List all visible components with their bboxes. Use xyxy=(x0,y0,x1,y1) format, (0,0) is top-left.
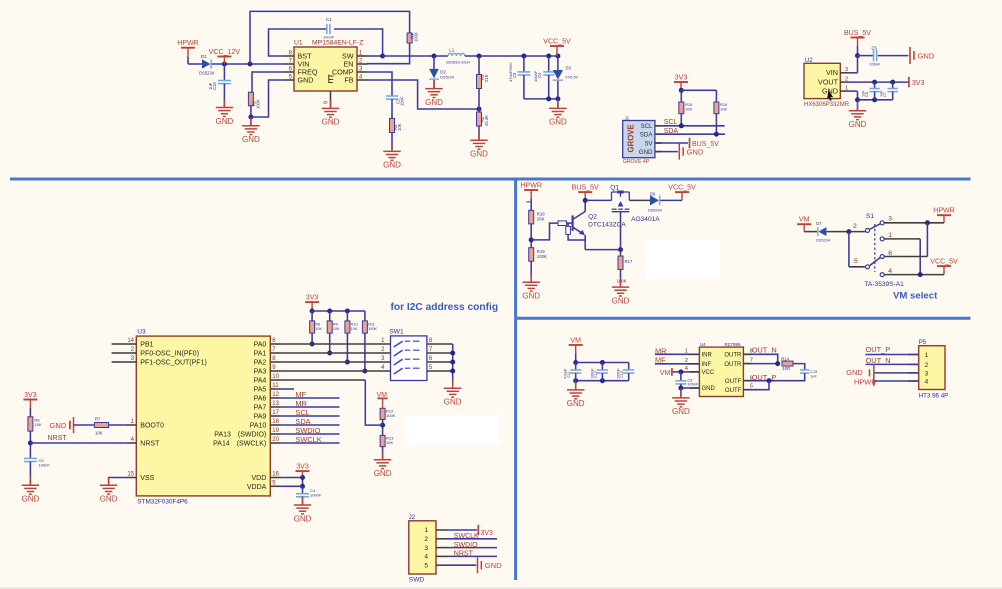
svg-text:10K: 10K xyxy=(95,431,103,436)
svg-text:PA3: PA3 xyxy=(254,369,267,376)
svg-text:OUTF: OUTF xyxy=(725,379,742,385)
svg-text:OUTR: OUTR xyxy=(724,362,742,368)
svg-text:GND: GND xyxy=(100,495,118,504)
svg-text:D7: D7 xyxy=(816,221,822,226)
svg-text:VCC_5V: VCC_5V xyxy=(668,185,696,192)
svg-text:100K: 100K xyxy=(537,254,547,259)
svg-text:BUS_5V: BUS_5V xyxy=(844,30,871,37)
svg-text:TA-3539S-A1: TA-3539S-A1 xyxy=(864,281,904,288)
svg-text:C6: C6 xyxy=(865,92,869,97)
svg-text:PA9: PA9 xyxy=(254,414,267,421)
svg-text:C1: C1 xyxy=(326,17,332,22)
svg-text:GND: GND xyxy=(298,76,314,85)
svg-text:GND: GND xyxy=(383,161,401,170)
svg-text:GND: GND xyxy=(22,495,40,504)
svg-text:S1: S1 xyxy=(866,213,874,220)
svg-text:6: 6 xyxy=(888,250,892,257)
svg-text:R7: R7 xyxy=(95,417,101,422)
svg-text:PA6: PA6 xyxy=(254,396,267,403)
svg-text:8: 8 xyxy=(750,348,753,354)
svg-text:SWCLK: SWCLK xyxy=(295,435,321,444)
svg-text:GROVE: GROVE xyxy=(627,124,636,152)
svg-text:Q2: Q2 xyxy=(588,214,597,221)
svg-text:GND: GND xyxy=(687,147,704,156)
svg-text:11: 11 xyxy=(272,383,279,389)
svg-text:1uF: 1uF xyxy=(810,374,817,378)
svg-text:10nF: 10nF xyxy=(400,96,405,106)
svg-text:GND: GND xyxy=(849,120,867,129)
svg-text:10K: 10K xyxy=(397,123,402,131)
svg-text:20: 20 xyxy=(272,437,279,443)
svg-text:100K: 100K xyxy=(386,413,396,418)
svg-text:18: 18 xyxy=(272,419,279,425)
svg-text:VCC: VCC xyxy=(702,370,715,376)
svg-text:HT3.96 4P: HT3.96 4P xyxy=(919,392,949,399)
svg-text:SDA: SDA xyxy=(664,128,679,135)
svg-text:2: 2 xyxy=(925,362,929,369)
svg-text:P5: P5 xyxy=(919,340,927,346)
svg-text:HPWR: HPWR xyxy=(177,40,199,47)
svg-text:HPWR: HPWR xyxy=(933,208,955,215)
svg-text:SWCLK: SWCLK xyxy=(454,533,479,540)
svg-text:INF: INF xyxy=(702,362,712,368)
svg-text:PA13 (SWDIO): PA13 (SWDIO) xyxy=(214,432,266,439)
svg-text:GND: GND xyxy=(425,98,443,107)
svg-text:15: 15 xyxy=(127,472,134,478)
svg-text:20K: 20K xyxy=(537,217,545,222)
svg-text:GND: GND xyxy=(470,150,488,159)
svg-text:PA7: PA7 xyxy=(254,405,267,412)
svg-text:GND: GND xyxy=(702,386,716,392)
svg-text:U1: U1 xyxy=(294,40,303,47)
svg-text:OUTR: OUTR xyxy=(724,353,742,359)
svg-text:5V: 5V xyxy=(645,140,653,147)
svg-text:PA10: PA10 xyxy=(250,423,267,430)
svg-text:1uF: 1uF xyxy=(208,82,213,90)
svg-text:R14: R14 xyxy=(781,356,789,361)
svg-text:L1: L1 xyxy=(449,48,455,53)
svg-text:SDA: SDA xyxy=(295,417,310,426)
svg-text:PF1-OSC_OUT(PF1): PF1-OSC_OUT(PF1) xyxy=(140,360,207,367)
svg-text:SWD: SWD xyxy=(409,577,425,584)
svg-text:470uF/50V: 470uF/50V xyxy=(508,62,513,82)
svg-text:SW1: SW1 xyxy=(389,329,404,336)
svg-text:DS5234: DS5234 xyxy=(648,208,662,212)
svg-text:100nF: 100nF xyxy=(870,63,881,67)
svg-text:100nF: 100nF xyxy=(39,463,51,468)
svg-text:R17: R17 xyxy=(625,259,633,264)
svg-text:VCC_5V: VCC_5V xyxy=(930,259,958,266)
svg-text:3V3: 3V3 xyxy=(296,464,309,471)
svg-text:PA14 (SWCLK): PA14 (SWCLK) xyxy=(213,441,266,448)
svg-text:VM: VM xyxy=(660,370,671,377)
svg-text:100nF: 100nF xyxy=(617,368,621,379)
svg-text:STM32F030F4P6: STM32F030F4P6 xyxy=(137,498,188,505)
svg-text:SD0810-10uH: SD0810-10uH xyxy=(446,61,470,65)
svg-text:FB: FB xyxy=(344,76,353,85)
svg-text:NRST: NRST xyxy=(454,551,474,558)
svg-text:3V3: 3V3 xyxy=(912,80,925,87)
svg-text:3: 3 xyxy=(845,67,848,73)
svg-text:D2: D2 xyxy=(440,70,446,75)
svg-text:for I2C address config: for I2C address config xyxy=(391,302,499,313)
svg-text:100nF: 100nF xyxy=(310,493,322,498)
svg-text:OUT_N: OUT_N xyxy=(866,356,891,365)
svg-text:1uF: 1uF xyxy=(880,90,884,97)
svg-text:3V3: 3V3 xyxy=(675,75,688,82)
svg-text:2: 2 xyxy=(853,223,857,230)
svg-text:D1: D1 xyxy=(201,54,207,59)
svg-text:19: 19 xyxy=(272,428,279,434)
svg-text:R9: R9 xyxy=(333,323,338,327)
svg-text:4: 4 xyxy=(925,378,929,385)
svg-text:10K: 10K xyxy=(315,327,322,331)
svg-text:VIN: VIN xyxy=(826,68,838,77)
svg-text:100nF: 100nF xyxy=(533,70,538,82)
svg-text:100nF: 100nF xyxy=(590,368,594,379)
svg-text:U2: U2 xyxy=(805,58,813,64)
svg-text:GND: GND xyxy=(242,135,260,144)
svg-text:10K: 10K xyxy=(720,107,727,112)
svg-text:2: 2 xyxy=(845,76,848,82)
svg-text:100K: 100K xyxy=(414,32,419,42)
svg-text:1: 1 xyxy=(925,352,929,359)
svg-text:D6: D6 xyxy=(650,191,656,196)
svg-text:10K: 10K xyxy=(333,327,340,331)
svg-text:GND: GND xyxy=(322,118,340,127)
svg-text:5: 5 xyxy=(424,562,428,569)
svg-text:DS5234: DS5234 xyxy=(199,71,215,76)
svg-text:INR: INR xyxy=(702,353,713,359)
svg-text:VCC_5V: VCC_5V xyxy=(543,39,571,46)
svg-text:SCL: SCL xyxy=(664,119,678,126)
svg-text:BUS_5V: BUS_5V xyxy=(572,185,599,192)
svg-text:MR: MR xyxy=(295,399,307,408)
svg-text:OUT_N: OUT_N xyxy=(752,346,777,355)
svg-text:VM select: VM select xyxy=(893,291,938,302)
svg-text:GND: GND xyxy=(918,51,935,60)
svg-text:5: 5 xyxy=(854,258,858,265)
svg-text:1: 1 xyxy=(845,85,848,91)
svg-text:10K: 10K xyxy=(685,107,692,112)
svg-text:7: 7 xyxy=(750,357,753,363)
svg-text:C7: C7 xyxy=(883,92,887,97)
svg-text:VCC_12V: VCC_12V xyxy=(209,49,241,56)
svg-text:U3: U3 xyxy=(137,329,146,336)
svg-text:VDDA: VDDA xyxy=(247,484,267,491)
svg-text:VM: VM xyxy=(570,338,581,345)
svg-text:21K: 21K xyxy=(484,74,489,82)
svg-text:VSS: VSS xyxy=(140,475,154,482)
svg-text:SCL: SCL xyxy=(295,408,309,417)
svg-text:10K: 10K xyxy=(386,440,393,445)
svg-text:R10: R10 xyxy=(351,323,358,327)
svg-text:100K: 100K xyxy=(256,99,261,109)
svg-text:HPWR: HPWR xyxy=(520,183,542,190)
svg-text:10R: 10R xyxy=(782,366,790,371)
svg-text:DS5234: DS5234 xyxy=(816,238,830,242)
svg-text:C5: C5 xyxy=(872,46,878,51)
svg-text:4: 4 xyxy=(424,554,428,561)
svg-text:10K: 10K xyxy=(351,327,358,331)
svg-text:MP1584EN-LF-Z: MP1584EN-LF-Z xyxy=(312,40,363,47)
svg-text:GND: GND xyxy=(522,292,540,301)
svg-text:13: 13 xyxy=(272,401,279,407)
svg-text:PA2: PA2 xyxy=(254,360,267,367)
svg-text:R11: R11 xyxy=(368,323,375,327)
svg-text:GND: GND xyxy=(294,514,312,523)
svg-text:SWDIO: SWDIO xyxy=(454,542,478,549)
svg-text:GND: GND xyxy=(612,296,630,305)
svg-text:14: 14 xyxy=(127,338,134,344)
svg-text:9: 9 xyxy=(324,101,330,104)
svg-text:BOOT0: BOOT0 xyxy=(140,423,164,430)
svg-text:PA5: PA5 xyxy=(254,387,267,394)
svg-text:OUT_P: OUT_P xyxy=(866,345,891,354)
svg-text:5: 5 xyxy=(750,383,753,389)
svg-text:SDA: SDA xyxy=(640,132,654,139)
svg-text:10K: 10K xyxy=(35,422,42,427)
svg-text:GND: GND xyxy=(485,561,502,570)
svg-text:VDD: VDD xyxy=(252,475,267,482)
svg-text:NRST: NRST xyxy=(140,441,160,448)
svg-text:100nF: 100nF xyxy=(688,383,699,387)
svg-text:3: 3 xyxy=(424,545,428,552)
svg-text:J2: J2 xyxy=(409,515,416,521)
svg-text:Q1: Q1 xyxy=(610,184,619,191)
svg-text:GND: GND xyxy=(444,398,462,407)
svg-text:PA4: PA4 xyxy=(254,378,267,385)
svg-text:10: 10 xyxy=(272,374,279,380)
svg-text:GND: GND xyxy=(639,149,653,156)
svg-text:12: 12 xyxy=(272,392,279,398)
svg-text:OUTF: OUTF xyxy=(725,388,742,394)
svg-text:1: 1 xyxy=(888,232,892,239)
svg-text:C11: C11 xyxy=(567,371,571,378)
svg-text:PA0: PA0 xyxy=(254,342,267,349)
svg-text:D3: D3 xyxy=(566,66,572,71)
svg-text:R8: R8 xyxy=(315,323,320,327)
svg-text:SWDIO: SWDIO xyxy=(295,426,320,435)
svg-text:HPWR: HPWR xyxy=(854,377,877,386)
svg-text:3V3: 3V3 xyxy=(481,530,494,537)
svg-text:PA1: PA1 xyxy=(254,351,267,358)
svg-text:470uF: 470uF xyxy=(564,368,568,379)
svg-text:16: 16 xyxy=(272,472,279,478)
svg-text:100K: 100K xyxy=(617,279,627,284)
svg-text:J1: J1 xyxy=(625,116,630,121)
svg-text:1: 1 xyxy=(685,348,688,354)
svg-text:FV6.5V: FV6.5V xyxy=(566,76,579,80)
svg-text:GND: GND xyxy=(567,399,585,408)
svg-text:3: 3 xyxy=(888,215,892,222)
svg-text:C15: C15 xyxy=(810,370,817,374)
svg-text:4: 4 xyxy=(888,268,892,275)
svg-text:VM: VM xyxy=(799,217,810,224)
svg-text:C12: C12 xyxy=(594,371,598,378)
svg-text:1: 1 xyxy=(424,527,428,534)
svg-text:AO3401A: AO3401A xyxy=(631,216,660,223)
svg-text:17: 17 xyxy=(272,410,279,416)
svg-text:3V3: 3V3 xyxy=(306,295,319,302)
svg-text:GND: GND xyxy=(549,118,567,127)
svg-text:GND: GND xyxy=(49,421,66,430)
svg-text:2: 2 xyxy=(424,536,428,543)
svg-text:3: 3 xyxy=(925,370,929,377)
svg-text:2: 2 xyxy=(685,358,688,364)
svg-text:GND: GND xyxy=(216,117,234,126)
svg-text:C13: C13 xyxy=(620,371,624,378)
svg-text:GND: GND xyxy=(846,368,862,377)
svg-text:1uF: 1uF xyxy=(862,90,866,97)
svg-text:DS5234: DS5234 xyxy=(440,76,454,80)
svg-text:MF: MF xyxy=(295,390,306,399)
svg-text:VOUT: VOUT xyxy=(818,78,839,87)
svg-text:GND: GND xyxy=(374,469,392,478)
svg-text:100K: 100K xyxy=(368,327,377,331)
svg-text:3V3: 3V3 xyxy=(24,392,37,399)
svg-text:RZ7899: RZ7899 xyxy=(725,342,742,347)
svg-text:NRST: NRST xyxy=(48,435,68,442)
svg-text:PB1: PB1 xyxy=(140,342,153,349)
svg-text:SCL: SCL xyxy=(640,123,653,130)
svg-text:PF0-OSC_IN(PF0): PF0-OSC_IN(PF0) xyxy=(140,351,199,358)
svg-text:GROVE 4P: GROVE 4P xyxy=(623,159,650,165)
svg-text:45.3K: 45.3K xyxy=(484,115,489,126)
svg-text:U4: U4 xyxy=(700,342,706,347)
svg-text:HX6306P332MR: HX6306P332MR xyxy=(804,102,850,108)
svg-text:GND: GND xyxy=(672,407,690,416)
